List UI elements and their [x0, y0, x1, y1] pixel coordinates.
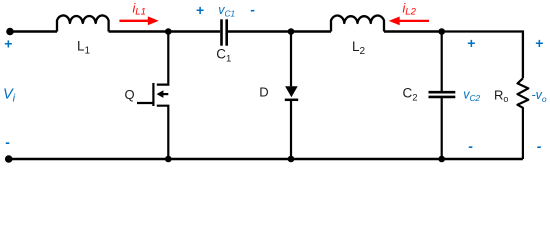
svg-text:+: + — [4, 35, 12, 51]
svg-text:-: - — [468, 138, 473, 154]
gate bar — [152, 83, 154, 106]
drain lead — [157, 32, 169, 85]
svg-text:+: + — [467, 35, 475, 51]
wire C1 to L2 — [228, 30, 331, 32]
svg-text:-: - — [250, 2, 255, 18]
node Q source junction — [165, 156, 172, 163]
current arrow iL1 — [119, 16, 158, 25]
wire L1 to C1 — [109, 30, 221, 32]
diode D — [285, 32, 298, 160]
node input - terminal — [5, 155, 13, 163]
transistor Q — [137, 32, 168, 160]
node input + terminal — [6, 28, 14, 36]
inductor L2 — [331, 16, 384, 32]
node L2/C2 junction — [438, 28, 445, 35]
svg-text:Q: Q — [125, 87, 135, 102]
svg-text:D: D — [259, 85, 268, 100]
node D bottom junction — [288, 156, 295, 163]
inductor L1 — [57, 15, 109, 31]
resistor Ro — [518, 78, 529, 159]
svg-text:-: - — [5, 134, 10, 150]
wire input to L1 — [10, 30, 57, 32]
capacitor C1 — [222, 19, 227, 45]
capacitor C2 — [429, 32, 456, 160]
wire bottom rail — [9, 158, 523, 160]
node C1/D junction top — [288, 28, 295, 35]
svg-text:+: + — [196, 2, 204, 18]
wire node to Ro corner — [442, 32, 523, 79]
current arrow iL2 — [389, 17, 429, 26]
body arrow — [163, 93, 169, 95]
svg-text:-: - — [537, 138, 542, 154]
node C2 bottom junction — [438, 156, 445, 163]
wire L2 to node — [384, 30, 442, 32]
svg-text:+: + — [535, 35, 543, 51]
node L1/Q/C1 junction — [165, 28, 172, 35]
source lead — [157, 106, 169, 159]
gate lead — [137, 102, 153, 104]
